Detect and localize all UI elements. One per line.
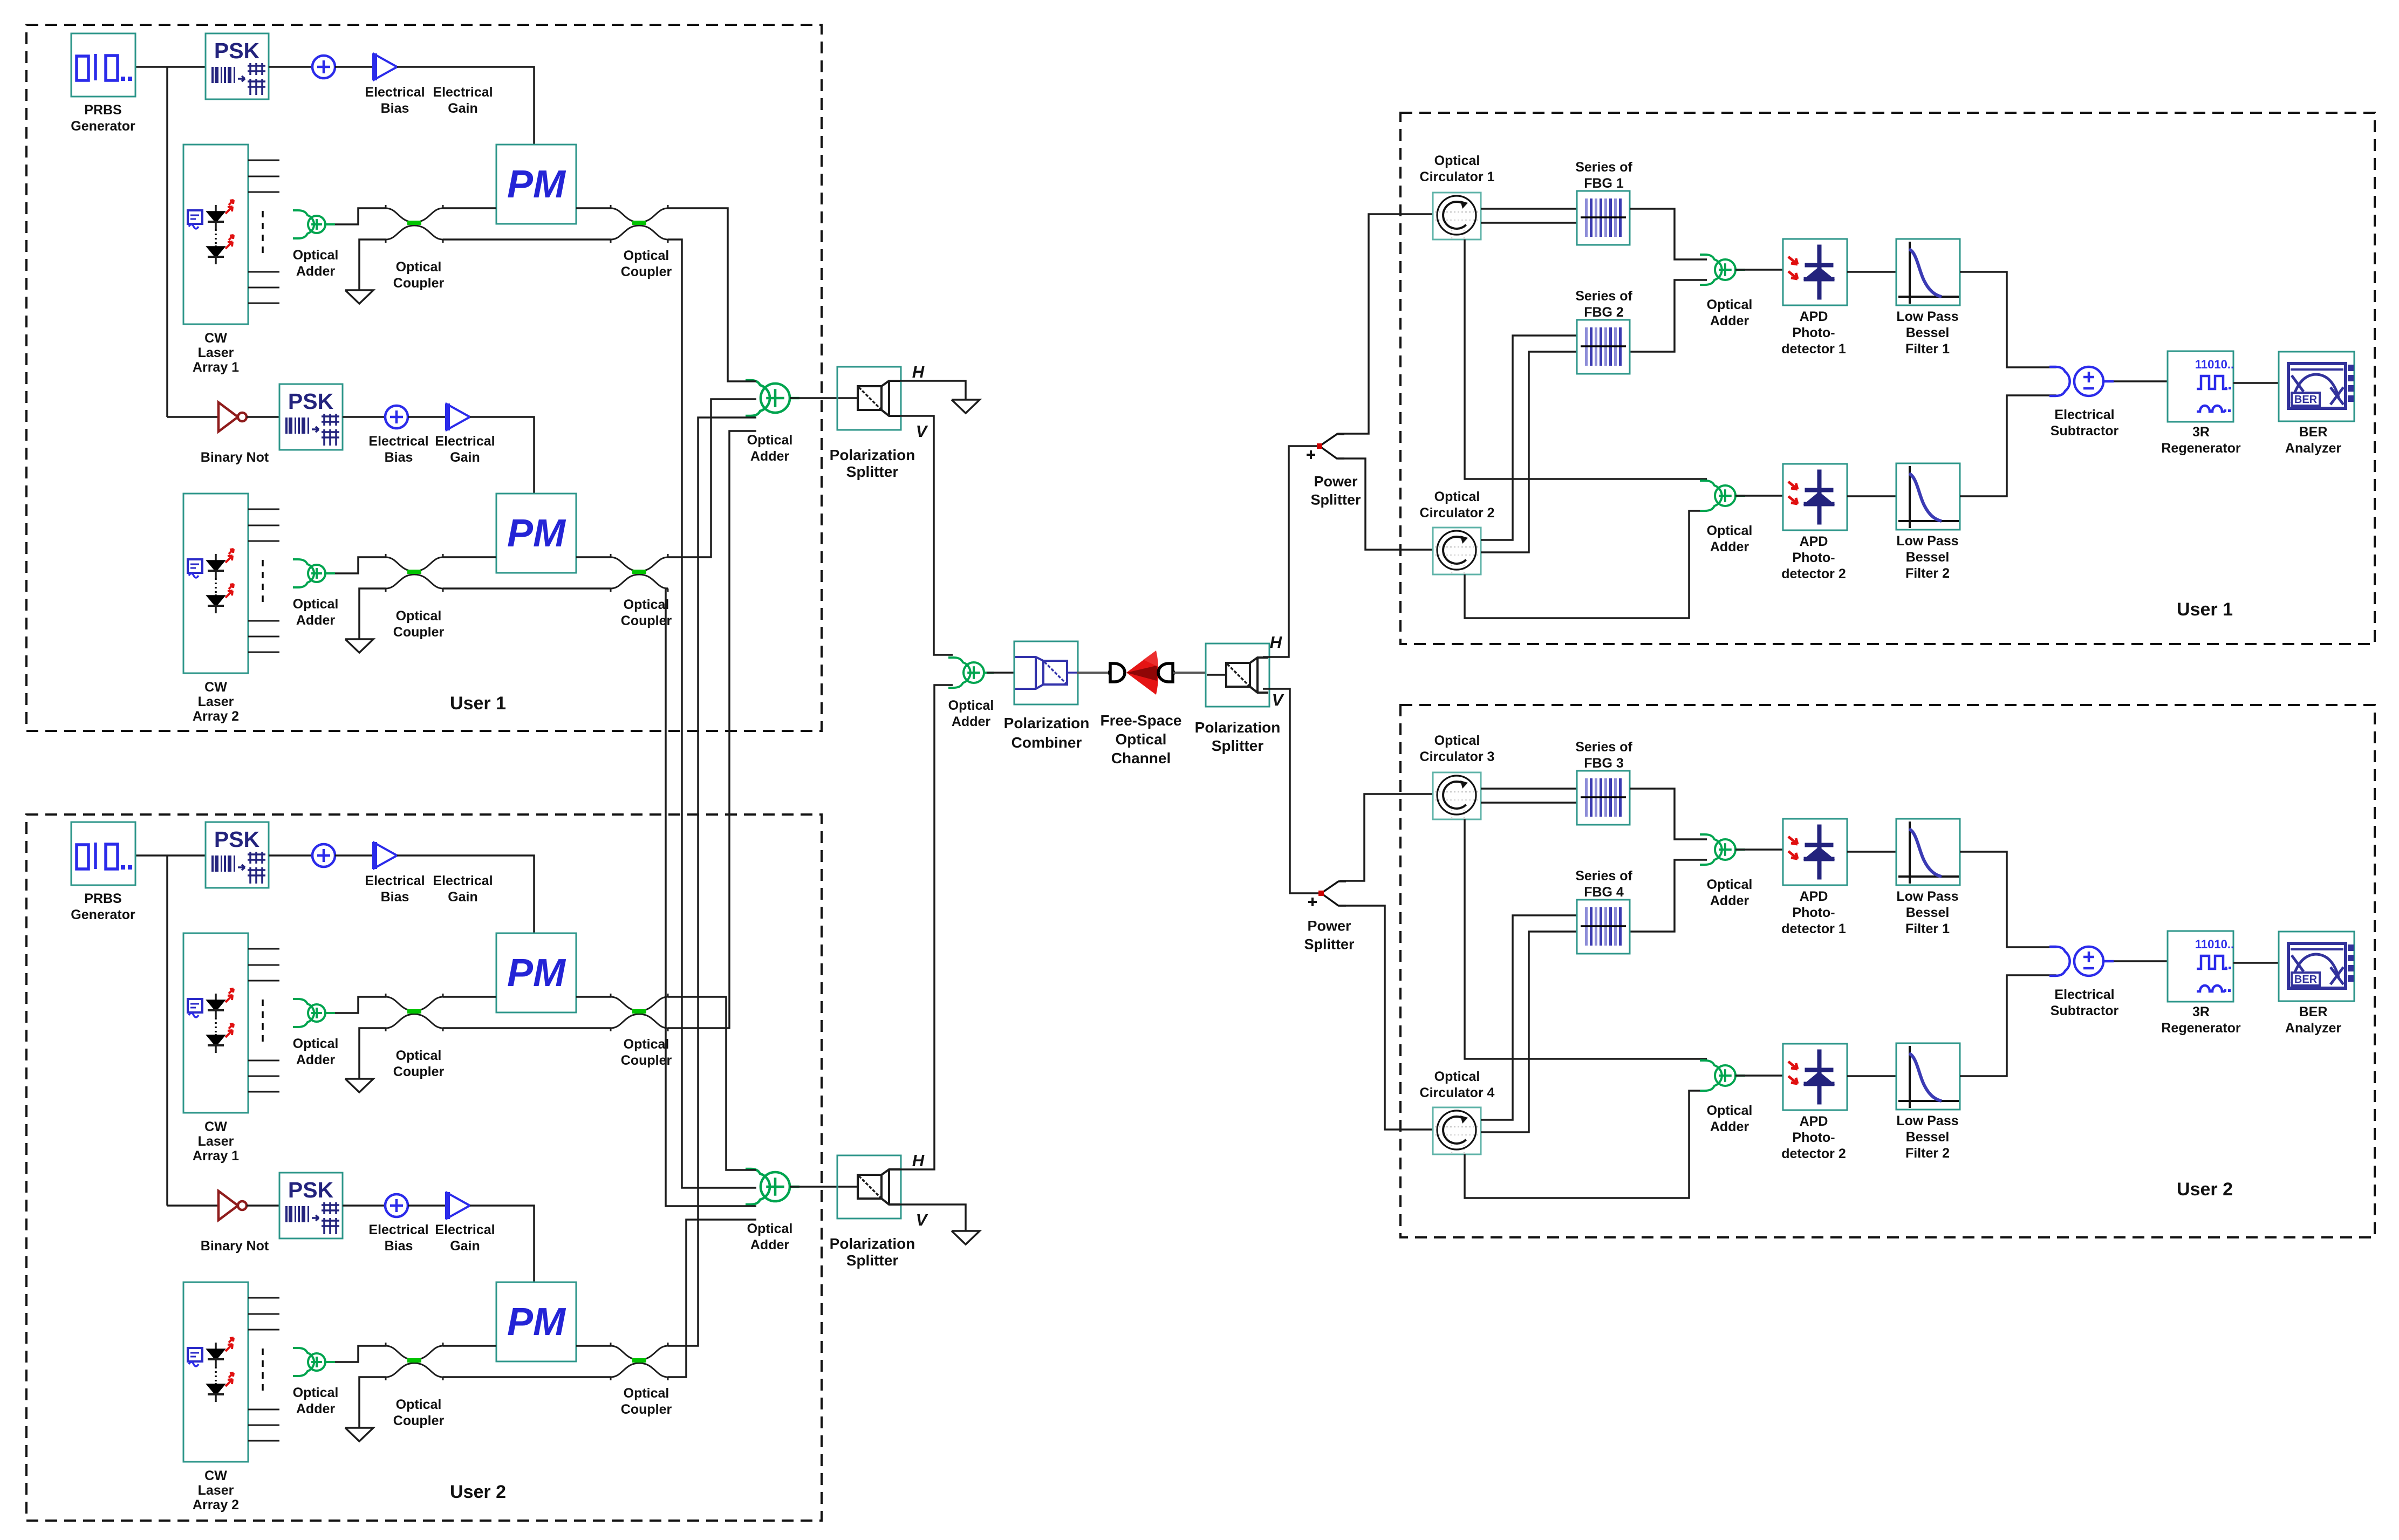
wire Electrical Gain to PM 1 (user 1) bbox=[397, 67, 534, 145]
svg-text:PSK: PSK bbox=[288, 1178, 334, 1202]
wire 3R Regenerator to BER Analyzer (user 2) bbox=[2233, 962, 2279, 964]
Low Pass Bessel Filter 1 (user 2) bbox=[1896, 819, 1960, 885]
svg-text:Array 2: Array 2 bbox=[193, 1497, 239, 1512]
APD Photodetector 2 (user 2) bbox=[1783, 1044, 1847, 1110]
wire bus to Binary Not (user 2) bbox=[167, 1204, 218, 1207]
wire PRBS Generator to PSK (user 2) bbox=[135, 854, 206, 857]
svg-text:BER: BER bbox=[2294, 394, 2318, 406]
svg-text:Adder: Adder bbox=[952, 714, 991, 729]
svg-text:Generator: Generator bbox=[71, 119, 135, 134]
svg-text:Array 1: Array 1 bbox=[193, 1148, 239, 1163]
wire User1 Polarization Splitter V output down to central Optical Adder bbox=[900, 416, 953, 655]
Optical Coupler B (user 2) bbox=[611, 994, 668, 1031]
collector Optical Adder (user 1) bbox=[746, 380, 799, 416]
receiver Polarization Splitter bbox=[1206, 644, 1269, 707]
wire Optical Adder 2 to Optical Coupler C (user 1) bbox=[335, 557, 386, 573]
Optical Circulator 1 bbox=[1433, 193, 1481, 239]
receiver Optical Adder A (user 2) bbox=[1700, 834, 1745, 865]
svg-text:Adder: Adder bbox=[1710, 1119, 1749, 1134]
svg-text:V: V bbox=[916, 422, 928, 441]
wire Coupler B top output to User1 collector adder input 1 bbox=[668, 208, 756, 381]
svg-text:Electrical: Electrical bbox=[433, 85, 493, 100]
svg-text:Low Pass: Low Pass bbox=[1896, 889, 1958, 904]
PM phase modulator 1 (user 1) bbox=[496, 145, 576, 224]
svg-text:Coupler: Coupler bbox=[393, 625, 445, 640]
wire 3R Regenerator to BER Analyzer (user 1) bbox=[2233, 382, 2279, 384]
svg-text:11010..: 11010.. bbox=[2195, 937, 2234, 951]
svg-text:CW: CW bbox=[204, 1119, 227, 1134]
wire Optical Circulator 4 to FBG 4 upper bbox=[1481, 915, 1577, 1120]
Optical Circulator 2 bbox=[1433, 528, 1481, 574]
wire central Optical Adder to Polarization Combiner bbox=[987, 672, 1015, 674]
svg-text:FBG 1: FBG 1 bbox=[1584, 176, 1624, 191]
wire APD Photodetector 2 to Low Pass Bessel Filter 2 (user 1) bbox=[1847, 495, 1896, 497]
svg-text:Filter 1: Filter 1 bbox=[1905, 921, 1950, 936]
wire Power Splitter 1 lower branch to Optical Circulator 2 bbox=[1338, 458, 1433, 550]
User 2 transmitter dashed frame bbox=[26, 815, 822, 1521]
wire Optical Coupler A to B lower arm (user 2) bbox=[443, 1027, 611, 1029]
svg-text:Splitter: Splitter bbox=[846, 1252, 899, 1269]
wire bus from PRBS junction down to Binary Not (user 2) bbox=[166, 855, 168, 1206]
wire PM 1 to Optical Coupler B (user 1) bbox=[576, 207, 611, 209]
svg-text:Power: Power bbox=[1314, 473, 1358, 489]
svg-text:detector 1: detector 1 bbox=[1781, 341, 1846, 357]
wire User1 Polarization Splitter H output to ground bbox=[900, 381, 966, 400]
APD Photodetector 1 (user 2) bbox=[1783, 819, 1847, 885]
svg-text:Optical: Optical bbox=[1707, 1103, 1753, 1118]
wire Optical Adder 2 to Optical Coupler C (user 2) bbox=[335, 1346, 386, 1362]
wire Optical Coupler C lower input to ground (user 2) bbox=[359, 1377, 386, 1428]
CW Laser Array 1 box (user 2) bbox=[183, 933, 248, 1113]
svg-text:PSK: PSK bbox=[288, 389, 334, 414]
svg-text:Series of: Series of bbox=[1575, 160, 1632, 175]
svg-text:BER: BER bbox=[2299, 425, 2328, 440]
svg-text:Analyzer: Analyzer bbox=[2285, 441, 2341, 456]
PRBS Generator box (user 1) bbox=[71, 33, 135, 97]
svg-text:Laser: Laser bbox=[198, 694, 234, 709]
wire FBG 2 to receiver Optical Adder A (user 1) bbox=[1630, 280, 1707, 352]
wire receiver Optical Adder B to APD Photodetector 2 (user 2) bbox=[1735, 1074, 1783, 1077]
wire Optical Circulator 1 third port to receiver Optical Adder B (user 1) bbox=[1465, 239, 1707, 479]
svg-text:Polarization: Polarization bbox=[1004, 715, 1090, 731]
CW Laser Array 2 box (user 1) bbox=[183, 494, 248, 673]
BER Analyzer (user 2) bbox=[2279, 932, 2354, 1001]
svg-text:Analyzer: Analyzer bbox=[2285, 1021, 2341, 1036]
svg-text:Series of: Series of bbox=[1575, 740, 1632, 755]
BER Analyzer (user 1) bbox=[2279, 352, 2354, 421]
receiver Optical Adder B (user 2) bbox=[1700, 1060, 1745, 1091]
Optical Coupler A (user 2) bbox=[386, 994, 443, 1031]
wire Optical Coupler C to PM 2 (user 2) bbox=[443, 1345, 496, 1347]
svg-text:PM: PM bbox=[507, 512, 566, 555]
wire PRBS Generator to PSK (user 1) bbox=[135, 66, 206, 68]
svg-text:Electrical: Electrical bbox=[435, 434, 495, 449]
svg-text:CW: CW bbox=[204, 1468, 227, 1483]
User 2 receiver dashed frame bbox=[1400, 705, 2375, 1237]
wire Optical Coupler A lower input to ground (user 1) bbox=[359, 239, 386, 290]
PSK modulator 2 (user 2) bbox=[279, 1173, 343, 1238]
svg-text:PSK: PSK bbox=[214, 827, 260, 852]
svg-text:Circulator 2: Circulator 2 bbox=[1420, 505, 1495, 521]
svg-text:Bessel: Bessel bbox=[1906, 1130, 1950, 1145]
wire Low Pass Bessel Filter 2 to Electrical Subtractor (user 2) bbox=[1960, 975, 2056, 1076]
svg-text:Adder: Adder bbox=[1710, 313, 1749, 328]
svg-text:PM: PM bbox=[507, 163, 566, 206]
Low Pass Bessel Filter 2 (user 2) bbox=[1896, 1043, 1960, 1110]
svg-text:Filter 2: Filter 2 bbox=[1905, 566, 1950, 581]
svg-text:Adder: Adder bbox=[296, 264, 336, 279]
collector Optical Adder (user 2) bbox=[746, 1169, 799, 1204]
svg-text:Electrical: Electrical bbox=[435, 1222, 495, 1237]
wire PM 1 to Optical Coupler B (user 2) bbox=[576, 996, 611, 998]
svg-text:Series of: Series of bbox=[1575, 289, 1632, 304]
wire PM 2 to Optical Coupler D (user 2) bbox=[576, 1345, 611, 1347]
svg-text:detector 2: detector 2 bbox=[1781, 1146, 1846, 1161]
wire Electrical Bias 2 to Electrical Gain 2 (user 2) bbox=[408, 1204, 446, 1207]
svg-text:PM: PM bbox=[507, 952, 566, 995]
svg-text:APD: APD bbox=[1800, 534, 1828, 549]
Electrical Gain 2 (user 1) bbox=[447, 404, 470, 430]
Optical Adder of laser array 1 (user 2) bbox=[293, 999, 335, 1027]
svg-text:FBG 2: FBG 2 bbox=[1584, 305, 1624, 320]
wire Optical Coupler A to PM 1 (user 1) bbox=[443, 207, 496, 209]
wire Optical Circulator 2 to FBG 2 upper bbox=[1481, 336, 1577, 540]
svg-text:Low Pass: Low Pass bbox=[1896, 1113, 1958, 1128]
svg-text:BER: BER bbox=[2299, 1004, 2328, 1019]
svg-text:Bias: Bias bbox=[381, 101, 409, 116]
svg-text:Coupler: Coupler bbox=[621, 1402, 672, 1417]
wire APD Photodetector 1 to Low Pass Bessel Filter 1 (user 2) bbox=[1847, 851, 1896, 853]
Series of FBG 2 box bbox=[1577, 320, 1630, 374]
PM phase modulator 1 (user 2) bbox=[496, 933, 576, 1012]
wire FBG 4 to receiver Optical Adder A (user 2) bbox=[1630, 860, 1707, 932]
wire Power Splitter 2 upper branch to Optical Circulator 3 bbox=[1339, 794, 1433, 881]
wire Optical Coupler C to PM 2 (user 1) bbox=[443, 556, 496, 558]
svg-text:Splitter: Splitter bbox=[1304, 936, 1355, 952]
Optical Circulator 3 bbox=[1433, 772, 1481, 819]
wire APD Photodetector 1 to Low Pass Bessel Filter 1 (user 1) bbox=[1847, 271, 1896, 273]
svg-text:Electrical: Electrical bbox=[365, 873, 425, 888]
wire Electrical Gain 2 to PM 2 (user 1) bbox=[470, 417, 534, 494]
wire Optical Adder to Optical Coupler A (user 2) bbox=[335, 997, 386, 1013]
Electrical Bias 1 (user 2) bbox=[312, 844, 335, 867]
wire receiver Optical Adder B to APD Photodetector 2 (user 1) bbox=[1735, 495, 1783, 497]
wire bus from PRBS junction down to Binary Not (user 1) bbox=[166, 67, 168, 417]
User 1 receiver dashed frame bbox=[1400, 113, 2375, 644]
svg-text:Subtractor: Subtractor bbox=[2051, 423, 2119, 439]
svg-text:Polarization: Polarization bbox=[830, 1235, 915, 1252]
wire Low Pass Bessel Filter 1 to Electrical Subtractor (user 2) bbox=[1960, 852, 2056, 947]
receiver Optical Adder A (user 1) bbox=[1700, 255, 1745, 285]
svg-text:Optical: Optical bbox=[1116, 731, 1167, 748]
PSK modulator 2 (user 1) bbox=[279, 384, 343, 450]
APD Photodetector 1 (user 1) bbox=[1783, 239, 1847, 305]
central Optical Adder before Polarization Combiner bbox=[948, 658, 994, 688]
wire PSK to Electrical Bias (user 1) bbox=[269, 66, 312, 68]
svg-text:Gain: Gain bbox=[448, 889, 478, 905]
wire Optical Coupler A to PM 1 (user 2) bbox=[443, 996, 496, 998]
svg-text:APD: APD bbox=[1800, 309, 1828, 324]
svg-text:Array 1: Array 1 bbox=[193, 360, 239, 375]
svg-text:3R: 3R bbox=[2192, 425, 2210, 440]
svg-text:Laser: Laser bbox=[198, 345, 234, 360]
Electrical Bias 2 (user 2) bbox=[385, 1194, 408, 1217]
wire Electrical Gain to PM 1 (user 2) bbox=[397, 855, 534, 933]
svg-text:Coupler: Coupler bbox=[621, 613, 672, 628]
wire Optical Adder to Optical Coupler A (user 1) bbox=[335, 208, 386, 224]
svg-text:Optical: Optical bbox=[948, 698, 994, 713]
svg-text:CW: CW bbox=[204, 680, 227, 695]
svg-text:Gain: Gain bbox=[450, 1238, 480, 1254]
svg-text:Filter 2: Filter 2 bbox=[1905, 1146, 1950, 1161]
svg-text:Optical: Optical bbox=[1707, 297, 1753, 312]
svg-text:CW: CW bbox=[204, 331, 227, 346]
Series of FBG 3 box bbox=[1577, 771, 1630, 825]
svg-text:Optical: Optical bbox=[1434, 489, 1480, 504]
wire collector Optical Adder to Polarization Splitter (user 2) bbox=[790, 1186, 859, 1188]
Electrical Gain 1 (user 1) bbox=[374, 54, 397, 80]
svg-text:Optical: Optical bbox=[1434, 1069, 1480, 1084]
wire Electrical Subtractor to 3R Regenerator (user 1) bbox=[2114, 380, 2168, 382]
Electrical Gain 2 (user 2) bbox=[447, 1193, 470, 1219]
svg-text:PRBS: PRBS bbox=[84, 102, 121, 118]
wire Low Pass Bessel Filter 1 to Electrical Subtractor (user 1) bbox=[1960, 272, 2056, 367]
wire APD Photodetector 2 to Low Pass Bessel Filter 2 (user 2) bbox=[1847, 1075, 1896, 1077]
svg-text:Optical: Optical bbox=[624, 248, 669, 263]
svg-text:Optical: Optical bbox=[1707, 523, 1753, 538]
wires Optical Circulator 3 to FBG 3 bbox=[1481, 788, 1577, 790]
svg-text:Regenerator: Regenerator bbox=[2161, 441, 2241, 456]
svg-text:Bias: Bias bbox=[385, 450, 413, 465]
Polarization Combiner bbox=[1014, 641, 1078, 704]
svg-text:Optical: Optical bbox=[624, 1037, 669, 1052]
receiver Optical Adder B (user 1) bbox=[1700, 481, 1745, 511]
Power Splitter 2 bbox=[1321, 881, 1346, 906]
svg-text:Gain: Gain bbox=[450, 450, 480, 465]
svg-text:User 1: User 1 bbox=[2177, 599, 2233, 620]
svg-text:Subtractor: Subtractor bbox=[2051, 1003, 2119, 1018]
svg-text:Coupler: Coupler bbox=[393, 276, 445, 291]
Polarization Splitter (user 2 transmitter) bbox=[837, 1155, 901, 1219]
wire Optical Circulator 2 third port to receiver Optical Adder B (user 1) bbox=[1465, 511, 1707, 618]
svg-text:Optical: Optical bbox=[624, 597, 669, 612]
wire Electrical Bias 2 to Electrical Gain 2 (user 1) bbox=[408, 416, 446, 418]
svg-text:Power: Power bbox=[1307, 918, 1351, 934]
Free-Space Optical Channel bbox=[1110, 663, 1125, 682]
ground below Optical Coupler A (user 2) bbox=[345, 1079, 373, 1092]
Polarization Splitter (user 1 transmitter) bbox=[837, 367, 901, 430]
svg-text:Electrical: Electrical bbox=[2054, 987, 2114, 1002]
svg-text:Photo-: Photo- bbox=[1792, 1130, 1835, 1145]
svg-text:Coupler: Coupler bbox=[621, 264, 672, 279]
svg-text:Splitter: Splitter bbox=[1212, 737, 1264, 754]
wire Power Splitter 2 lower branch to Optical Circulator 4 bbox=[1339, 906, 1433, 1130]
svg-text:Circulator 4: Circulator 4 bbox=[1420, 1085, 1495, 1100]
wire User1 Coupler B bottom output down to User2 collector adder input 2 bbox=[668, 239, 756, 1188]
svg-text:Polarization: Polarization bbox=[830, 447, 915, 463]
wire User2 Coupler B top output down to User2 collector adder input 1 bbox=[668, 997, 756, 1170]
wire Free-Space Optical Channel to receiver Polarization Splitter bbox=[1173, 672, 1207, 674]
svg-text:Adder: Adder bbox=[296, 613, 336, 628]
svg-text:Optical: Optical bbox=[293, 248, 339, 263]
wire Optical Coupler C to D lower arm (user 2) bbox=[443, 1376, 611, 1378]
Optical Coupler D (user 2) bbox=[611, 1343, 668, 1380]
Optical Coupler A (user 1) bbox=[386, 205, 443, 243]
svg-text:Laser: Laser bbox=[198, 1483, 234, 1498]
Electrical Subtractor (user 2) bbox=[2049, 947, 2114, 976]
wire receiver Polarization Splitter V down to Power Splitter 2 bbox=[1263, 689, 1321, 893]
Optical Adder of laser array 2 (user 1) bbox=[293, 559, 335, 587]
wire receiver Optical Adder A to APD Photodetector 1 (user 2) bbox=[1735, 848, 1783, 851]
wire receiver Polarization Splitter H up to Power Splitter 1 bbox=[1263, 446, 1320, 657]
svg-text:Circulator 1: Circulator 1 bbox=[1420, 169, 1495, 184]
PM phase modulator 2 (user 2) bbox=[496, 1282, 576, 1361]
wire bus to Binary Not (user 1) bbox=[167, 416, 218, 418]
wire Optical Circulator 3 third port to receiver Optical Adder B (user 2) bbox=[1465, 819, 1707, 1059]
svg-text:Electrical: Electrical bbox=[365, 85, 425, 100]
Optical Circulator 4 bbox=[1433, 1107, 1481, 1154]
svg-text:Optical: Optical bbox=[293, 1385, 339, 1400]
svg-text:Low Pass: Low Pass bbox=[1896, 309, 1958, 324]
wire Electrical Subtractor to 3R Regenerator (user 2) bbox=[2114, 960, 2168, 962]
svg-text:Bessel: Bessel bbox=[1906, 905, 1950, 920]
svg-text:PRBS: PRBS bbox=[84, 891, 121, 906]
svg-text:11010..: 11010.. bbox=[2195, 358, 2234, 371]
wire FBG 1 to receiver Optical Adder A (user 1) bbox=[1630, 209, 1707, 259]
svg-text:Optical: Optical bbox=[396, 1397, 442, 1412]
svg-text:Photo-: Photo- bbox=[1792, 550, 1835, 565]
svg-text:detector 1: detector 1 bbox=[1781, 921, 1846, 936]
svg-text:Binary Not: Binary Not bbox=[201, 450, 269, 465]
svg-text:User 2: User 2 bbox=[450, 1482, 506, 1502]
wire Optical Coupler C lower input to ground (user 1) bbox=[359, 588, 386, 639]
svg-text:Regenerator: Regenerator bbox=[2161, 1021, 2241, 1036]
svg-text:3R: 3R bbox=[2192, 1004, 2210, 1019]
svg-text:H: H bbox=[912, 362, 925, 381]
svg-text:detector 2: detector 2 bbox=[1781, 566, 1846, 581]
Optical Coupler D (user 1) bbox=[611, 554, 668, 592]
wire Electrical Bias to Electrical Gain (user 2) bbox=[335, 854, 373, 857]
Electrical Gain 1 (user 2) bbox=[374, 843, 397, 868]
svg-text:H: H bbox=[1270, 633, 1282, 652]
wire PSK 2 to Electrical Bias 2 (user 1) bbox=[343, 416, 385, 418]
svg-text:Generator: Generator bbox=[71, 907, 135, 922]
CW Laser Array 2 box (user 2) bbox=[183, 1282, 248, 1462]
svg-text:BER: BER bbox=[2294, 974, 2318, 985]
svg-text:Bessel: Bessel bbox=[1906, 325, 1950, 340]
svg-text:Circulator 3: Circulator 3 bbox=[1420, 749, 1495, 764]
User 1 transmitter dashed frame bbox=[26, 25, 822, 731]
PRBS Generator box (user 2) bbox=[71, 822, 135, 885]
wire Optical Coupler A lower input to ground (user 2) bbox=[359, 1028, 386, 1079]
svg-text:Electrical: Electrical bbox=[368, 434, 428, 449]
svg-text:PSK: PSK bbox=[214, 38, 260, 63]
Series of FBG 1 box bbox=[1577, 191, 1630, 245]
Optical Adder of laser array 2 (user 2) bbox=[293, 1348, 335, 1376]
svg-text:Free-Space: Free-Space bbox=[1101, 712, 1182, 729]
svg-text:Splitter: Splitter bbox=[846, 463, 899, 480]
wire User2 Polarization Splitter V output to ground bbox=[900, 1204, 966, 1231]
svg-text:Adder: Adder bbox=[750, 1237, 790, 1252]
svg-text:FBG 4: FBG 4 bbox=[1584, 885, 1624, 900]
svg-text:Adder: Adder bbox=[1710, 539, 1749, 555]
svg-text:Splitter: Splitter bbox=[1310, 491, 1361, 508]
wire PSK 2 to Electrical Bias 2 (user 2) bbox=[343, 1204, 385, 1207]
svg-text:Optical: Optical bbox=[624, 1386, 669, 1401]
svg-text:Array 2: Array 2 bbox=[193, 709, 239, 724]
PSK modulator 1 (user 1) bbox=[206, 33, 269, 99]
svg-text:Optical: Optical bbox=[747, 433, 793, 448]
svg-text:Gain: Gain bbox=[448, 101, 478, 116]
wire Optical Coupler C to D lower arm (user 1) bbox=[443, 587, 611, 590]
wire Power Splitter 1 upper branch to Optical Circulator 1 bbox=[1337, 214, 1433, 434]
Power Splitter 1 bbox=[1320, 434, 1344, 458]
wire collector Optical Adder to Polarization Splitter (user 1) bbox=[790, 397, 859, 399]
APD Photodetector 2 (user 1) bbox=[1783, 464, 1847, 530]
Low Pass Bessel Filter 2 (user 1) bbox=[1896, 463, 1960, 530]
svg-text:PM: PM bbox=[507, 1301, 566, 1344]
wire User2 Coupler D bottom output to User2 collector adder input 4 bbox=[668, 1220, 756, 1377]
svg-text:Optical: Optical bbox=[396, 259, 442, 275]
svg-text:Photo-: Photo- bbox=[1792, 325, 1835, 340]
wire User2 Coupler D top output up to User1 collector adder input 3 bbox=[668, 417, 756, 1346]
svg-text:APD: APD bbox=[1800, 1114, 1828, 1129]
svg-text:Bias: Bias bbox=[381, 889, 409, 905]
Optical Coupler C (user 2) bbox=[386, 1343, 443, 1380]
wire receiver Optical Adder A to APD Photodetector 1 (user 1) bbox=[1735, 269, 1783, 271]
svg-text:Low Pass: Low Pass bbox=[1896, 533, 1958, 549]
ground below Optical Coupler A (user 1) bbox=[345, 290, 373, 304]
svg-text:Optical: Optical bbox=[396, 608, 442, 624]
Binary Not (user 1) bbox=[218, 402, 238, 432]
svg-text:Optical: Optical bbox=[1434, 153, 1480, 168]
svg-text:Photo-: Photo- bbox=[1792, 905, 1835, 920]
svg-text:Laser: Laser bbox=[198, 1134, 234, 1149]
3R Regenerator (user 2) bbox=[2168, 931, 2233, 1002]
svg-text:Combiner: Combiner bbox=[1011, 734, 1082, 751]
svg-text:Binary Not: Binary Not bbox=[201, 1238, 269, 1254]
wire Optical Circulator 4 third port to receiver Optical Adder B (user 2) bbox=[1465, 1091, 1707, 1198]
wire User2 Coupler B bottom output up to User1 collector adder input 4 bbox=[668, 431, 756, 1028]
svg-text:V: V bbox=[1272, 690, 1284, 709]
svg-text:Filter 1: Filter 1 bbox=[1905, 341, 1950, 357]
wire Electrical Gain 2 to PM 2 (user 2) bbox=[470, 1206, 534, 1282]
svg-text:Optical: Optical bbox=[293, 597, 339, 612]
svg-text:Optical: Optical bbox=[747, 1221, 793, 1236]
svg-text:Bessel: Bessel bbox=[1906, 550, 1950, 565]
PSK modulator 1 (user 2) bbox=[206, 822, 269, 888]
wire User2 Polarization Splitter H output up to central Optical Adder bbox=[900, 685, 953, 1169]
wire Optical Circulator 2 to FBG 2 lower bbox=[1481, 352, 1577, 552]
svg-text:Adder: Adder bbox=[296, 1052, 336, 1067]
ground below Optical Coupler C (user 2) bbox=[345, 1428, 373, 1441]
wire Low Pass Bessel Filter 2 to Electrical Subtractor (user 1) bbox=[1960, 395, 2056, 496]
svg-text:Polarization: Polarization bbox=[1195, 719, 1281, 736]
Binary Not (user 2) bbox=[218, 1191, 238, 1220]
CW Laser Array 1 box (user 1) bbox=[183, 145, 248, 324]
svg-text:User 1: User 1 bbox=[450, 693, 506, 714]
svg-text:Electrical: Electrical bbox=[2054, 407, 2114, 422]
wire Polarization Combiner to Free-Space Optical Channel bbox=[1077, 672, 1109, 674]
3R Regenerator (user 1) bbox=[2168, 351, 2233, 422]
wire PM 2 to Optical Coupler D (user 1) bbox=[576, 556, 611, 558]
Electrical Bias 2 (user 1) bbox=[385, 406, 408, 428]
svg-text:User 2: User 2 bbox=[2177, 1179, 2233, 1200]
svg-text:Adder: Adder bbox=[750, 449, 790, 464]
ground below Optical Coupler C (user 1) bbox=[345, 639, 373, 653]
Low Pass Bessel Filter 1 (user 1) bbox=[1896, 239, 1960, 305]
wire Binary Not to PSK 2 (user 2) bbox=[247, 1204, 279, 1207]
